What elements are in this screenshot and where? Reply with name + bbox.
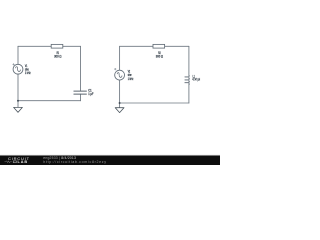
svg-text:LAB: LAB (18, 160, 29, 164)
svg-text:http://circuitlab.com/c8r2ezy: http://circuitlab.com/c8r2ezy (43, 160, 106, 164)
svg-text:300 Ω: 300 Ω (156, 55, 164, 59)
svg-text:1 µF: 1 µF (88, 92, 93, 96)
svg-text:47.47 µH: 47.47 µH (192, 77, 200, 81)
svg-text:1 kHz: 1 kHz (25, 71, 31, 75)
svg-text:300 Ω: 300 Ω (54, 55, 62, 59)
svg-text:1 kHz: 1 kHz (128, 77, 134, 81)
